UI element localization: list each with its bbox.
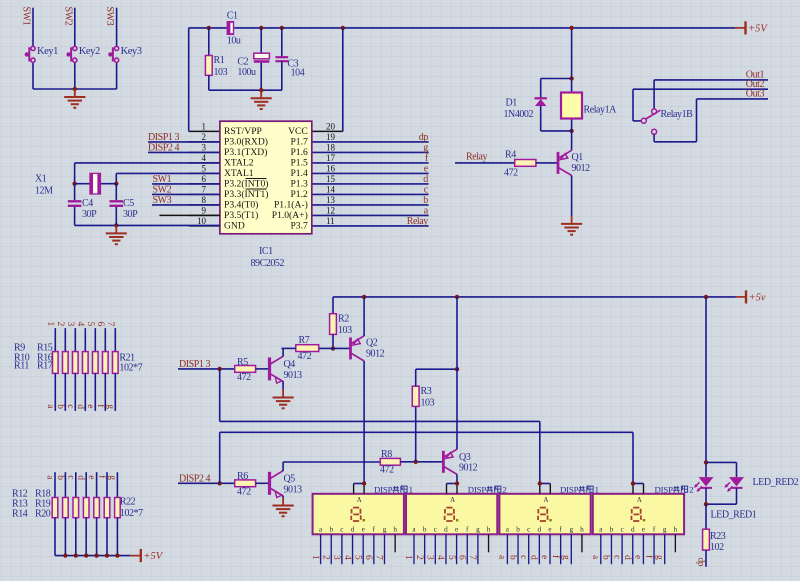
svg-text:R1: R1 <box>214 55 225 66</box>
svg-text:9013: 9013 <box>284 370 303 381</box>
svg-text:g: g <box>105 404 115 409</box>
svg-text:1: 1 <box>403 555 413 560</box>
svg-text:X1: X1 <box>35 174 47 185</box>
svg-text:c: c <box>340 525 343 533</box>
svg-text:+5V: +5V <box>143 551 163 562</box>
svg-text:4: 4 <box>435 555 445 560</box>
svg-text:e: e <box>85 404 95 408</box>
svg-text:2: 2 <box>202 132 207 142</box>
svg-text:GND: GND <box>224 220 245 231</box>
svg-text:6: 6 <box>95 322 105 327</box>
svg-text:5: 5 <box>202 164 207 174</box>
svg-text:g: g <box>663 525 667 533</box>
svg-text:LED_RED1: LED_RED1 <box>711 509 757 520</box>
svg-text:3: 3 <box>425 555 435 560</box>
svg-text:5: 5 <box>446 555 456 560</box>
svg-text:13: 13 <box>326 195 336 205</box>
svg-text:2: 2 <box>55 322 65 327</box>
svg-text:Relay1B: Relay1B <box>661 109 694 120</box>
svg-text:b: b <box>423 195 428 206</box>
svg-text:SW3: SW3 <box>104 7 115 26</box>
svg-text:b: b <box>507 555 517 560</box>
svg-text:3: 3 <box>331 555 341 560</box>
svg-text:P3.2(INT0): P3.2(INT0) <box>224 178 269 189</box>
svg-text:P1.0(A+): P1.0(A+) <box>272 210 308 221</box>
svg-text:d: d <box>76 475 86 480</box>
svg-text:b: b <box>329 525 333 533</box>
svg-text:Relay: Relay <box>466 151 488 162</box>
svg-text:+5V: +5V <box>748 24 768 35</box>
svg-text:Q5: Q5 <box>284 474 296 485</box>
svg-text:3: 3 <box>65 322 75 327</box>
svg-text:12: 12 <box>326 206 335 216</box>
svg-text:7: 7 <box>202 185 207 195</box>
svg-text:R4: R4 <box>505 149 516 160</box>
svg-text:c: c <box>434 525 437 533</box>
svg-text:b: b <box>55 404 65 409</box>
svg-text:e: e <box>455 525 458 533</box>
svg-text:P3.0(RXD): P3.0(RXD) <box>224 136 268 147</box>
svg-text:100u: 100u <box>237 67 256 78</box>
svg-text:e: e <box>362 525 365 533</box>
svg-text:2: 2 <box>414 555 424 560</box>
svg-text:R8: R8 <box>381 449 392 460</box>
svg-text:1N4002: 1N4002 <box>504 109 534 120</box>
svg-text:XTAL2: XTAL2 <box>224 157 254 168</box>
svg-text:472: 472 <box>380 464 394 475</box>
svg-text:A: A <box>450 497 455 504</box>
svg-text:Q2: Q2 <box>366 338 378 349</box>
svg-text:102: 102 <box>710 542 724 553</box>
svg-text:SW2: SW2 <box>62 7 73 26</box>
svg-text:Relay: Relay <box>407 216 429 227</box>
svg-text:C5: C5 <box>123 198 134 209</box>
svg-text:d: d <box>622 555 632 560</box>
svg-text:c: c <box>65 475 75 479</box>
svg-text:P3.5(T1): P3.5(T1) <box>224 210 258 221</box>
svg-text:7: 7 <box>374 555 384 560</box>
svg-text:89C2052: 89C2052 <box>251 258 285 269</box>
svg-text:9012: 9012 <box>572 163 591 174</box>
svg-text:dp: dp <box>419 132 429 143</box>
svg-text:3: 3 <box>202 143 207 153</box>
svg-text:20: 20 <box>326 122 336 132</box>
svg-text:17: 17 <box>326 153 336 163</box>
svg-text:472: 472 <box>298 351 312 362</box>
svg-text:P3.1(TXD): P3.1(TXD) <box>224 147 267 158</box>
svg-text:11: 11 <box>326 216 335 226</box>
svg-text:R22: R22 <box>120 496 136 507</box>
svg-text:SW3: SW3 <box>153 195 172 206</box>
svg-text:e: e <box>539 555 549 559</box>
svg-text:30P: 30P <box>82 209 97 220</box>
svg-text:16: 16 <box>326 164 336 174</box>
svg-text:g: g <box>654 555 664 560</box>
svg-text:d: d <box>444 525 448 533</box>
svg-text:g: g <box>476 525 480 533</box>
svg-text:C2: C2 <box>237 56 248 67</box>
svg-text:P3.4(T0): P3.4(T0) <box>224 199 258 210</box>
svg-text:6: 6 <box>456 555 466 560</box>
svg-text:14: 14 <box>326 185 336 195</box>
svg-text:Key1: Key1 <box>37 46 58 57</box>
svg-text:P1.4: P1.4 <box>290 168 308 179</box>
svg-text:103: 103 <box>338 325 352 336</box>
svg-text:4: 4 <box>75 322 85 327</box>
svg-text:d: d <box>538 525 542 533</box>
svg-text:19: 19 <box>326 132 336 142</box>
svg-text:R6: R6 <box>237 471 248 482</box>
svg-text:1: 1 <box>595 485 599 495</box>
svg-text:2: 2 <box>502 485 506 495</box>
svg-text:d: d <box>351 525 355 533</box>
svg-text:LED_RED2: LED_RED2 <box>753 477 799 488</box>
svg-text:104: 104 <box>291 68 305 79</box>
svg-text:102*7: 102*7 <box>119 363 142 374</box>
svg-text:b: b <box>516 525 520 533</box>
svg-text:6: 6 <box>202 174 207 184</box>
svg-text:DISP: DISP <box>374 485 393 495</box>
svg-text:R11: R11 <box>14 360 29 371</box>
svg-text:Relay1A: Relay1A <box>584 104 618 115</box>
svg-text:R20: R20 <box>35 508 51 519</box>
svg-text:Out3: Out3 <box>746 89 765 100</box>
svg-text:c: c <box>527 525 530 533</box>
svg-text:8: 8 <box>202 195 207 205</box>
svg-text:1: 1 <box>409 485 413 495</box>
svg-text:SW2: SW2 <box>153 184 172 195</box>
svg-text:C1: C1 <box>227 11 238 22</box>
svg-text:dp: dp <box>695 558 705 567</box>
svg-text:c: c <box>518 555 528 559</box>
svg-text:g: g <box>561 555 571 560</box>
svg-text:1: 1 <box>202 122 207 132</box>
svg-text:9: 9 <box>202 206 207 216</box>
svg-text:e: e <box>633 555 643 559</box>
svg-text:DISP1 3: DISP1 3 <box>148 132 179 143</box>
svg-text:+5v: +5v <box>749 293 766 304</box>
svg-text:DISP2 4: DISP2 4 <box>148 143 179 154</box>
svg-text:SW1: SW1 <box>21 7 32 26</box>
svg-text:P1.3: P1.3 <box>290 178 308 189</box>
svg-text:6: 6 <box>363 555 373 560</box>
svg-text:XTAL1: XTAL1 <box>224 168 254 179</box>
svg-text:SW1: SW1 <box>153 174 172 185</box>
svg-text:R5: R5 <box>237 357 248 368</box>
svg-text:472: 472 <box>237 372 251 383</box>
svg-text:d: d <box>631 525 635 533</box>
svg-text:7: 7 <box>467 555 477 560</box>
svg-text:1: 1 <box>45 322 55 327</box>
svg-text:b: b <box>55 475 65 480</box>
svg-text:P3.3(INT1): P3.3(INT1) <box>224 189 269 200</box>
svg-text:b: b <box>423 525 427 533</box>
svg-text:4: 4 <box>342 555 352 560</box>
svg-text:P1.5: P1.5 <box>290 157 308 168</box>
svg-text:103: 103 <box>421 398 435 409</box>
svg-text:R3: R3 <box>421 386 432 397</box>
svg-text:30P: 30P <box>123 209 138 220</box>
svg-text:Key2: Key2 <box>79 46 100 57</box>
svg-text:1: 1 <box>310 555 320 560</box>
svg-text:R23: R23 <box>710 531 726 542</box>
svg-text:P1.1(A-): P1.1(A-) <box>274 199 308 210</box>
svg-text:2: 2 <box>689 485 693 495</box>
svg-text:R14: R14 <box>12 508 28 519</box>
svg-text:DISP: DISP <box>468 485 487 495</box>
svg-text:P1.6: P1.6 <box>290 147 308 158</box>
svg-text:10u: 10u <box>227 36 241 47</box>
svg-text:g: g <box>570 525 574 533</box>
svg-text:9013: 9013 <box>284 484 303 495</box>
svg-text:c: c <box>65 404 75 408</box>
svg-text:C4: C4 <box>82 198 93 209</box>
svg-text:9012: 9012 <box>366 348 385 359</box>
svg-text:18: 18 <box>326 143 336 153</box>
svg-text:c: c <box>620 525 623 533</box>
svg-text:DISP: DISP <box>560 485 579 495</box>
svg-text:g: g <box>383 525 387 533</box>
svg-text:VCC: VCC <box>288 126 308 137</box>
svg-text:R17: R17 <box>37 360 53 371</box>
svg-text:RST/VPP: RST/VPP <box>224 126 262 137</box>
svg-text:h: h <box>393 525 397 533</box>
svg-text:102*7: 102*7 <box>120 508 143 519</box>
svg-text:h: h <box>487 525 491 533</box>
svg-text:Q3: Q3 <box>459 452 471 463</box>
svg-text:472: 472 <box>504 167 518 178</box>
svg-text:4: 4 <box>202 153 207 163</box>
svg-text:c: c <box>611 555 621 559</box>
svg-text:DISP: DISP <box>655 485 674 495</box>
svg-text:A: A <box>637 497 642 504</box>
svg-text:e: e <box>86 475 96 479</box>
svg-text:P1.7: P1.7 <box>290 136 308 147</box>
svg-text:IC1: IC1 <box>259 246 273 257</box>
svg-text:e: e <box>548 525 551 533</box>
svg-text:A: A <box>543 497 548 504</box>
svg-text:9012: 9012 <box>459 462 478 473</box>
svg-text:d: d <box>529 555 539 560</box>
svg-text:15: 15 <box>326 174 336 184</box>
svg-text:g: g <box>107 475 117 480</box>
svg-text:d: d <box>75 404 85 409</box>
svg-text:Key3: Key3 <box>121 46 142 57</box>
svg-text:g: g <box>423 143 428 154</box>
svg-text:h: h <box>580 525 584 533</box>
svg-text:R2: R2 <box>338 313 349 324</box>
svg-text:h: h <box>674 525 678 533</box>
svg-text:7: 7 <box>105 322 115 327</box>
svg-text:D1: D1 <box>506 97 518 108</box>
svg-text:2: 2 <box>320 555 330 560</box>
svg-text:e: e <box>642 525 645 533</box>
svg-text:472: 472 <box>237 487 251 498</box>
svg-text:b: b <box>601 555 611 560</box>
svg-text:d: d <box>423 174 428 185</box>
svg-text:103: 103 <box>214 67 228 78</box>
svg-text:R7: R7 <box>299 335 310 346</box>
svg-text:5: 5 <box>352 555 362 560</box>
svg-text:Q1: Q1 <box>572 152 584 163</box>
svg-text:12M: 12M <box>35 186 53 197</box>
svg-text:P1.2: P1.2 <box>290 189 308 200</box>
svg-text:P3.7: P3.7 <box>290 220 308 231</box>
svg-text:A: A <box>357 497 362 504</box>
svg-text:b: b <box>610 525 614 533</box>
svg-text:5: 5 <box>85 322 95 327</box>
svg-text:Q4: Q4 <box>284 359 296 370</box>
